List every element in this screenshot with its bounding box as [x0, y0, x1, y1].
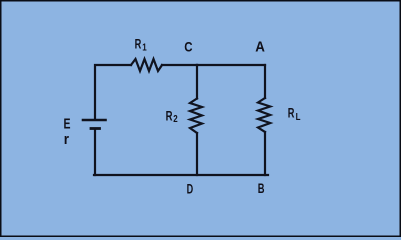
wire: R1 to node C — [162, 64, 197, 66]
wire: node C down to R2 — [196, 65, 198, 99]
wire: node C to corner A — [197, 64, 265, 66]
wire: battery - terminal down to bottom rail — [94, 129, 96, 175]
wire: bottom rail from battery - terminal to node B — [94, 174, 268, 176]
battery E long plate (+) — [83, 119, 106, 122]
label RL — [288, 105, 295, 122]
svg-text:E: E — [64, 115, 71, 132]
svg-text:r: r — [64, 131, 70, 148]
wire: battery + terminal up and across to R1 — [95, 65, 131, 120]
svg-text:A: A — [255, 39, 265, 56]
label C — [184, 38, 192, 54]
label R1 — [135, 36, 142, 53]
label R2 — [166, 107, 173, 123]
wire: corner A down to RL — [264, 65, 266, 98]
wire: R2 down to node D — [196, 133, 198, 175]
svg-text:R: R — [135, 36, 142, 53]
svg-text:1: 1 — [142, 42, 146, 53]
wire: RL down to node B — [264, 132, 266, 175]
svg-text:R: R — [166, 107, 173, 123]
label D — [187, 181, 194, 198]
label R2 subscript 2 — [173, 113, 177, 124]
label E — [64, 115, 71, 132]
svg-text:2: 2 — [173, 113, 177, 124]
svg-text:C: C — [184, 38, 192, 54]
label B — [258, 180, 265, 196]
label A — [255, 39, 265, 56]
label RL subscript L — [296, 111, 301, 122]
resistor R1 — [131, 59, 162, 71]
svg-text:R: R — [288, 105, 295, 122]
resistor RL — [258, 98, 270, 132]
resistor R2 — [190, 99, 202, 134]
svg-text:B: B — [258, 180, 265, 196]
svg-text:D: D — [187, 181, 194, 198]
svg-text:L: L — [296, 111, 301, 122]
label R1 subscript 1 — [142, 42, 146, 53]
battery E short plate (-) — [91, 127, 100, 130]
label r — [64, 131, 70, 148]
